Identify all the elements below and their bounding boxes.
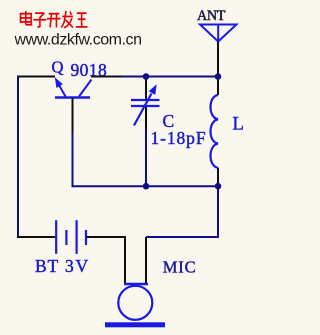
svg-text:L: L <box>232 113 244 134</box>
王 <box>76 13 88 27</box>
capacitor C variable symbol <box>131 94 160 126</box>
wire left rail <box>17 76 19 238</box>
watermark text 电子开发王 (red, hand-drawn CJK strokes) <box>20 11 87 28</box>
wire C bottom lead (navy) <box>145 129 147 186</box>
svg-text:BT: BT <box>35 256 59 276</box>
wire mic left lead <box>124 237 126 283</box>
svg-text:3V: 3V <box>65 256 90 276</box>
子 <box>33 13 46 27</box>
wire collector to tank (black part) <box>91 76 122 78</box>
wire right rail lower (navy) <box>146 186 218 237</box>
svg-text:MIC: MIC <box>163 257 197 276</box>
wire base lead lower + bottom rail (navy) <box>73 133 219 186</box>
node bottom of L <box>215 183 222 190</box>
wire L bottom lead <box>217 168 219 186</box>
电 <box>20 11 31 25</box>
battery BT symbol <box>56 220 86 254</box>
microphone MIC symbol <box>105 284 165 327</box>
svg-text:Q: Q <box>52 58 64 77</box>
wire battery left <box>17 236 55 238</box>
wire top rail (navy part) <box>122 76 218 78</box>
wire base lead (black part) <box>72 98 74 133</box>
transistor Q1 9018 symbol <box>55 80 92 98</box>
wire antenna lead <box>217 42 219 77</box>
svg-text:www.dzkfw.com.cn: www.dzkfw.com.cn <box>14 32 142 49</box>
wire C top lead <box>145 77 147 99</box>
wire C mid lead (black below plates) <box>145 107 147 129</box>
wire L top lead <box>217 77 219 95</box>
node top of C <box>143 73 150 80</box>
svg-text:ANT: ANT <box>197 8 226 24</box>
antenna ANT symbol <box>200 25 237 42</box>
开 <box>47 14 61 28</box>
wire emitter to left rail <box>17 76 55 78</box>
wire battery right <box>87 236 126 238</box>
inductor coil cusp nubs <box>215 118 218 121</box>
node top of L <box>215 73 222 80</box>
inductor L symbol <box>211 95 219 168</box>
node bottom of C <box>143 183 150 190</box>
wire mic right lead <box>145 237 147 283</box>
发 <box>61 11 73 28</box>
svg-text:1-18pF: 1-18pF <box>151 128 207 148</box>
